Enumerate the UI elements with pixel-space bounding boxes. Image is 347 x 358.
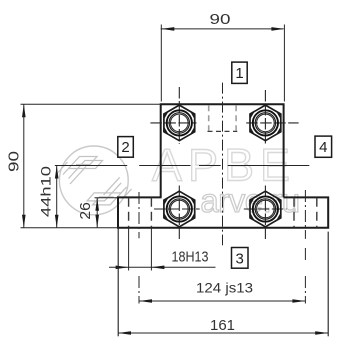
svg-text:18H13: 18H13 — [172, 249, 209, 265]
dimension 18H13 — [109, 229, 216, 271]
step line y165 — [55, 165, 309, 167]
balloon 4 — [315, 136, 332, 157]
balloon 3 — [232, 248, 249, 269]
svg-text:3: 3 — [236, 250, 244, 267]
balloon 2 — [118, 137, 134, 158]
dimension 90 top — [161, 25, 285, 102]
base plate outline — [118, 197, 328, 227]
dimension 44h10 — [56, 166, 58, 228]
balloon 1 — [232, 62, 247, 83]
dimension 90 left — [21, 104, 161, 227]
hidden slot centre top (grey dashed verticals) — [209, 105, 236, 130]
bolt BL — [164, 191, 195, 227]
watermark logo zigzag — [58, 157, 132, 205]
svg-text:4: 4 — [319, 139, 327, 156]
watermark logo circle — [59, 146, 128, 215]
bolt TL centerlines — [150, 87, 196, 144]
hidden slot centre bottom dashes — [208, 130, 238, 132]
svg-text:44h10: 44h10 — [38, 166, 54, 217]
svg-text:1: 1 — [235, 65, 243, 82]
bolt TR — [250, 105, 281, 141]
body upper block outline — [161, 104, 284, 197]
hidden slot right (dashed) — [294, 198, 317, 228]
centerline slot right — [304, 190, 306, 304]
svg-text:26: 26 — [78, 202, 94, 220]
bolt BR — [250, 191, 281, 227]
watermark text arve.ru — [200, 182, 299, 219]
watermark text APBE — [152, 140, 296, 191]
dimension 161 — [118, 229, 328, 337]
bolt TR centerlines — [246, 90, 298, 144]
bolt TL — [164, 105, 195, 141]
hidden slot left (dashed) — [129, 198, 152, 228]
svg-text:2: 2 — [121, 139, 129, 156]
svg-text:90: 90 — [210, 12, 231, 28]
dimension 26 — [95, 198, 119, 228]
bolt BR centerlines — [244, 186, 287, 241]
svg-text:161: 161 — [210, 317, 235, 334]
dimension 124 js13 — [139, 300, 305, 302]
centerline slot left — [138, 192, 140, 304]
svg-text:90: 90 — [6, 151, 22, 172]
bolt BL centerlines — [154, 186, 200, 241]
main vertical centerline — [222, 83, 224, 246]
svg-text:124 js13: 124 js13 — [196, 280, 253, 296]
